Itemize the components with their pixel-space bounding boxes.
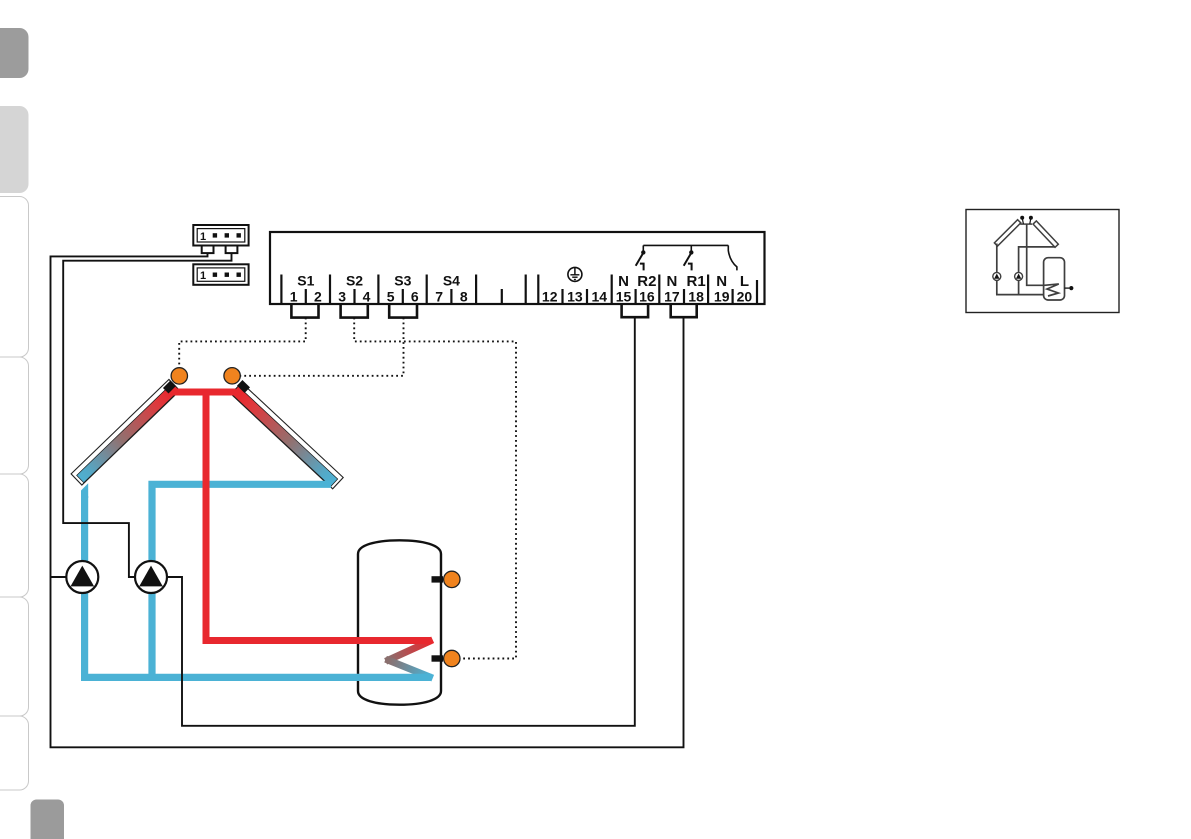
svg-text:14: 14	[592, 289, 608, 305]
svg-text:7: 7	[435, 289, 443, 305]
bottom grey page marker	[31, 800, 65, 839]
left page tab 5 (white)	[0, 474, 29, 597]
svg-text:15: 15	[616, 289, 632, 305]
icon flow line to tank	[1027, 224, 1045, 285]
relay R2 fixed contact hook	[640, 264, 644, 271]
heat exchanger coil segment (hot)	[389, 641, 430, 660]
pump P2	[135, 561, 167, 593]
svg-text:S4: S4	[443, 273, 460, 289]
sensor pocket right collector	[237, 380, 250, 393]
icon return line left collector	[996, 244, 998, 295]
left page tab 1 (dark grey)	[0, 28, 29, 78]
svg-text:2: 2	[314, 289, 322, 305]
connector J1 pin 1 tab	[202, 246, 214, 254]
icon return line right collector	[1019, 247, 1055, 295]
left page tab 6 (white)	[0, 597, 29, 716]
tank sensor pocket upper	[432, 576, 444, 582]
svg-text:L: L	[740, 273, 749, 290]
wire: pump P2 to relay R2 bracket	[166, 317, 635, 726]
svg-text:8: 8	[460, 289, 468, 305]
controller terminal strip outline	[270, 232, 765, 304]
icon pump 1	[993, 272, 1001, 280]
pump P1	[66, 561, 98, 593]
svg-text:1: 1	[200, 231, 206, 243]
svg-text:R2: R2	[637, 273, 656, 290]
red flow pipe between collector headers (beveled ends)	[170, 389, 243, 396]
tank sensor pocket lower	[432, 655, 444, 661]
svg-text:S1: S1	[297, 273, 314, 289]
icon pump 2	[1015, 272, 1023, 280]
protective earth symbol	[568, 267, 582, 281]
dotted sensor lead S3 to collector sensor 2	[241, 318, 404, 376]
collector panel right	[231, 383, 343, 489]
wire: connector J1 pin2 to pump P2	[63, 253, 231, 577]
wire stub to pump P1	[51, 576, 68, 578]
heat exchanger coil segment (cold)	[389, 660, 430, 676]
svg-text:17: 17	[664, 289, 680, 305]
4-pin connector J1 (upper)	[193, 225, 248, 246]
relay R2 switch arm	[636, 254, 643, 266]
svg-text:S3: S3	[394, 273, 411, 289]
relay terminal labels N R2 N R1 N L	[618, 273, 749, 290]
svg-text:R1: R1	[687, 273, 706, 290]
svg-text:N: N	[666, 273, 677, 290]
icon sensor dots	[1022, 218, 1023, 224]
storage tank	[358, 540, 441, 704]
left page tab 4 (white)	[0, 357, 29, 474]
svg-text:20: 20	[737, 289, 753, 305]
plug bracket under terminals 3-4	[341, 304, 368, 318]
relay feed curve to L terminal	[728, 245, 737, 270]
tank sensor lower (orange)	[444, 650, 460, 666]
plug bracket under terminals 15-16	[622, 304, 649, 317]
icon heat exchanger	[1044, 284, 1059, 296]
svg-text:19: 19	[714, 289, 730, 305]
relay common feed line	[643, 244, 728, 246]
plug bracket under terminals 5-6	[389, 304, 417, 318]
svg-text:N: N	[618, 273, 629, 290]
plug bracket under terminals 17-18	[671, 304, 697, 317]
collector sensor 2 (orange)	[224, 368, 240, 384]
left page tab 3 (white)	[0, 197, 29, 358]
terminal divider ticks (tall)	[281, 275, 757, 305]
dotted sensor lead S2 to tank sensor	[354, 318, 516, 659]
relay R2 contact pivot	[642, 245, 644, 251]
blue return pipe from collectors through pumps to tank	[81, 483, 88, 498]
svg-text:1: 1	[290, 289, 298, 305]
icon tank	[1044, 258, 1065, 300]
sensor group labels S1..S4	[297, 273, 460, 289]
mains wire: connector J1 pin1 via pump P1 to relay R1 bracket	[51, 253, 684, 747]
dotted sensor lead S1 to collector sensor 1	[179, 318, 306, 367]
svg-text:N: N	[716, 273, 727, 290]
svg-text:16: 16	[639, 289, 655, 305]
tank sensor upper (orange)	[444, 571, 460, 587]
left page tab 7 (white)	[0, 716, 29, 790]
red flow pipe down to tank	[206, 392, 432, 641]
blue pipe from right collector down through pump P2	[152, 484, 331, 677]
relay R1 contact pivot	[690, 245, 692, 251]
collector sensor 1 (orange)	[171, 368, 187, 384]
svg-text:S2: S2	[346, 273, 363, 289]
svg-text:12: 12	[542, 289, 558, 305]
relay R1 fixed contact hook	[688, 264, 692, 271]
svg-text:6: 6	[411, 289, 419, 305]
icon bottom line	[996, 294, 1044, 296]
connector J1 pin 2 tab	[226, 246, 238, 254]
system icon box (top right)	[966, 210, 1119, 313]
svg-text:1: 1	[200, 270, 206, 282]
icon header line	[1020, 223, 1032, 225]
relay R1 switch arm	[684, 254, 691, 266]
sensor pocket left collector	[163, 381, 176, 394]
plug bracket under terminals 1-2	[291, 304, 318, 318]
icon tank sensor	[1065, 287, 1070, 289]
terminal divider ticks (short)	[306, 289, 733, 304]
icon collector right	[1033, 221, 1058, 247]
collector panel left	[71, 379, 180, 485]
svg-text:5: 5	[387, 289, 395, 305]
terminal numbers	[290, 289, 753, 305]
svg-text:3: 3	[338, 289, 346, 305]
icon collector left	[994, 220, 1020, 246]
4-pin connector J2 (lower)	[193, 264, 248, 285]
left page tab 2 (light grey)	[0, 106, 29, 193]
svg-text:18: 18	[688, 289, 704, 305]
svg-text:4: 4	[363, 289, 371, 305]
svg-text:13: 13	[567, 289, 583, 305]
